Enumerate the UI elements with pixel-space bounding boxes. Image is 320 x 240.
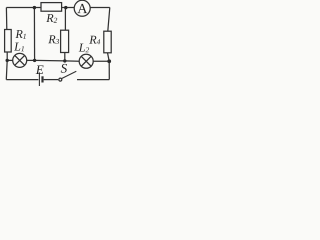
wire R3 to mid wire xyxy=(64,53,66,61)
node dot right rail mid xyxy=(107,59,111,63)
wire mid node to R3 bottom node xyxy=(35,59,65,62)
node dot left rail mid xyxy=(6,59,9,62)
wire bottom-left to battery xyxy=(6,79,38,81)
wire R2 to ammeter xyxy=(62,7,75,9)
label R1 xyxy=(15,30,25,39)
resistor R1 xyxy=(5,30,12,53)
wire lamp L2 to right rail xyxy=(93,60,109,62)
node dot below R3 xyxy=(63,59,66,62)
resistor R3 xyxy=(61,30,69,52)
wire right rail lower xyxy=(108,61,110,79)
wire junction to lamp L1 xyxy=(7,59,13,61)
lamp L1 xyxy=(13,53,27,67)
wire battery to switch xyxy=(44,79,59,81)
wire left rail lower xyxy=(5,60,8,79)
label A xyxy=(77,4,87,13)
wire R3 branch vertical xyxy=(64,8,66,31)
wire R3 node to lamp L2 xyxy=(65,60,79,62)
wire R4 to mid junction xyxy=(108,53,110,61)
label L2 xyxy=(79,44,89,53)
node dot lamp L1 right xyxy=(33,59,36,62)
wire ammeter to top-right corner xyxy=(90,7,110,9)
label R4 xyxy=(89,36,100,45)
label R3 xyxy=(48,35,59,44)
wire switch to bottom-right xyxy=(77,79,109,81)
node dot top branch 1 xyxy=(33,6,36,9)
label S xyxy=(61,64,67,73)
lamp L1 cross xyxy=(15,55,25,65)
battery E short plate xyxy=(41,76,43,82)
battery E long plate xyxy=(38,72,40,86)
resistor R4 xyxy=(104,31,111,53)
wire R1 to junction xyxy=(6,52,8,60)
switch S pivot xyxy=(59,78,62,81)
wire top-left to R2 xyxy=(6,7,41,9)
label R2 xyxy=(46,14,57,23)
node dot top branch 2 xyxy=(64,6,67,9)
wire right rail upper xyxy=(108,8,110,32)
ammeter A xyxy=(74,0,90,16)
label L1 xyxy=(14,43,24,52)
wire lamp L1 to node xyxy=(27,59,35,61)
label E xyxy=(36,65,44,74)
wire vertical branch from top node xyxy=(33,8,35,61)
lamp L2 xyxy=(79,54,93,68)
lamp L2 cross xyxy=(81,56,91,66)
wire left rail upper xyxy=(5,8,7,30)
resistor R2 xyxy=(41,3,62,12)
switch S lever xyxy=(62,71,77,78)
